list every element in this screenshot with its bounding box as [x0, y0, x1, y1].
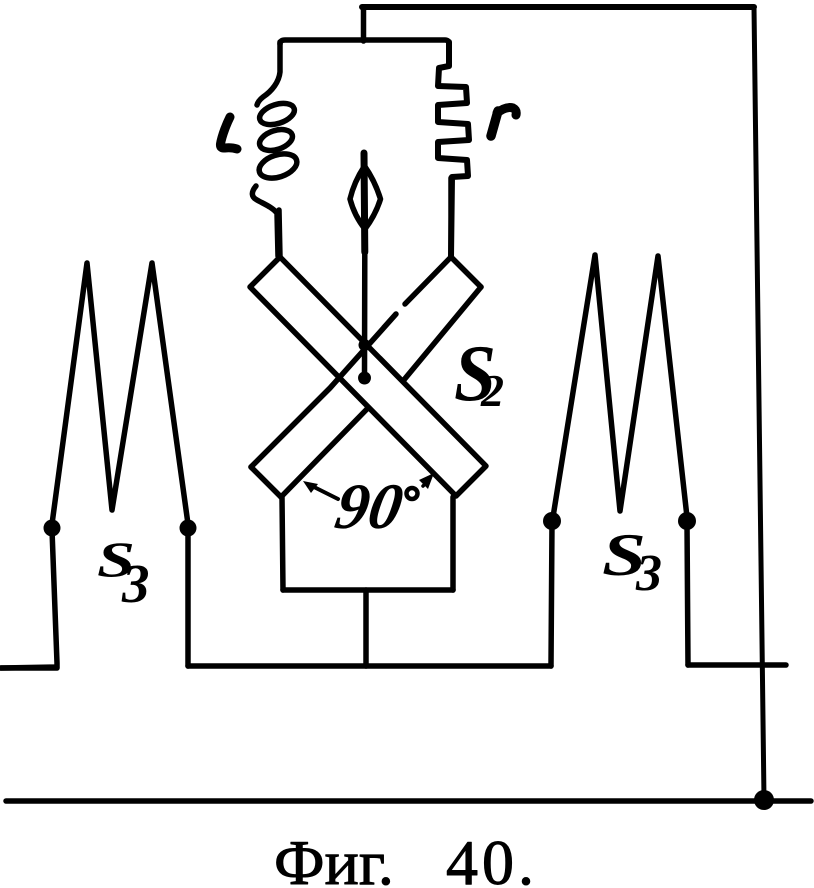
inductor L loop 1 — [257, 99, 297, 128]
coil S3 right — [553, 255, 687, 517]
coil S2 rear rectangle right side upper segment — [403, 287, 481, 381]
bottom line — [6, 798, 811, 804]
coil S2 rear rectangle left side upper segment — [405, 257, 451, 304]
coil S3 left terminal dot left — [44, 520, 61, 537]
label r — [491, 111, 498, 136]
arrow right of 90 — [423, 482, 427, 486]
coil S3 left terminal dot right — [180, 520, 197, 537]
wire right vertical — [754, 7, 764, 799]
label L — [220, 117, 237, 149]
bottom bus segment left — [1, 665, 57, 671]
coil S3 left — [52, 263, 188, 524]
junction dot — [754, 790, 774, 810]
wire S2 to bottom bus — [363, 590, 369, 666]
inductor L loop 3 — [256, 150, 300, 183]
svg-text:2: 2 — [480, 365, 504, 416]
arrow left of 90 — [310, 485, 338, 499]
degree symbol — [407, 488, 418, 499]
coil S3 right terminal dot left — [543, 512, 561, 530]
wire top bus — [362, 4, 754, 10]
coil S2 rear rectangle left side visible through front — [251, 314, 396, 467]
svg-text:90: 90 — [330, 471, 408, 542]
inductor L exit wire — [252, 186, 278, 256]
coil S3 right terminal dot right — [678, 512, 696, 530]
wire S2 bottom left — [282, 497, 283, 590]
crossing knot — [359, 339, 371, 351]
svg-text:3: 3 — [121, 553, 150, 614]
svg-text:Фиг.: Фиг. — [274, 827, 394, 888]
resistor r — [438, 42, 469, 257]
coil S2 rear rectangle top edge — [451, 257, 481, 287]
wire S2 bottom horizontal — [283, 587, 453, 593]
wire S3 left right leg — [185, 530, 191, 666]
needle pivot dot — [358, 372, 371, 385]
needle line lower — [362, 250, 368, 377]
bottom bus segment middle — [188, 663, 551, 669]
wire S3 left leg to edge — [1, 530, 57, 668]
wire S3 right right leg — [687, 523, 688, 665]
wire r to S2 coil — [448, 178, 454, 257]
wire top tap — [361, 8, 367, 41]
wire S3 right left leg — [551, 523, 552, 666]
wire L to S2 coil — [279, 210, 280, 257]
bottom bus segment right — [688, 662, 786, 668]
svg-text:40.: 40. — [446, 827, 538, 888]
needle line upper — [361, 153, 369, 252]
coil S2 rear rectangle right side lower segment — [281, 409, 367, 497]
inductor L entry wire — [257, 42, 280, 105]
inductor L loop 2 — [257, 126, 295, 155]
svg-text:3: 3 — [635, 545, 662, 602]
wire L-r top rail — [280, 40, 449, 44]
coil S2 rear rectangle bottom edge — [251, 467, 281, 497]
coil S2 front rectangle — [250, 257, 486, 496]
needle arrowhead diamond — [350, 166, 381, 229]
wire S2 bottom right — [450, 497, 456, 590]
